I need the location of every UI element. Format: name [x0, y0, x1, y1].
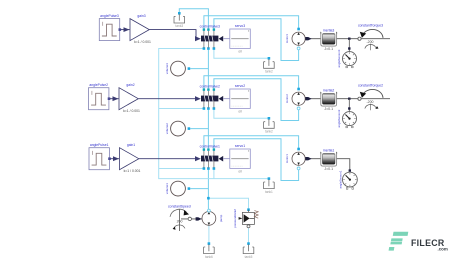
- tank tank5 under relief valve: [243, 244, 254, 258]
- pulse source anglePulse1: [89, 143, 111, 170]
- volume volume1: [165, 181, 185, 196]
- svg-text:servo3: servo3: [235, 24, 245, 28]
- tank tank2 at y58.3: [264, 59, 275, 73]
- pulse source anglePulse2: [89, 83, 111, 110]
- svg-text:oil: oil: [238, 49, 242, 53]
- svg-text:servo1: servo1: [235, 144, 245, 148]
- svg-text:anglePulse2: anglePulse2: [89, 83, 108, 87]
- svg-text:k=1 / 0.001: k=1 / 0.001: [123, 109, 140, 113]
- wire gain2 to controlValve2: [138, 98, 199, 100]
- inertia inertia3: [320, 28, 337, 51]
- gain gain1: [120, 143, 141, 173]
- svg-text:volume3: volume3: [165, 63, 169, 74]
- shaft motor2 to inertia2: [305, 97, 321, 100]
- torque source constantTorque2: [358, 83, 383, 110]
- shaft inertia1 to speedSensor1: [337, 159, 351, 172]
- wire valve3 T-port to tank3: [179, 9, 208, 31]
- svg-text:.com: .com: [438, 246, 448, 251]
- wire relief valve branch: [208, 198, 248, 210]
- wire anglePulse1 to gain1: [110, 156, 119, 161]
- svg-text:-200: -200: [366, 40, 373, 44]
- svg-text:constantTorque2: constantTorque2: [358, 83, 383, 87]
- svg-text:oil: oil: [238, 169, 242, 173]
- wire valve3 leak to tank2: [214, 49, 269, 59]
- wire valve1 leak down: [213, 169, 215, 179]
- shaft motor3 to inertia3: [305, 37, 321, 40]
- svg-text:controlValve2: controlValve2: [200, 84, 220, 88]
- svg-text:anglePulse1: anglePulse1: [90, 143, 109, 147]
- inertia inertia1: [320, 148, 337, 171]
- wire valve2 leak to tank2b: [214, 109, 269, 119]
- watermark logo FILECR: [389, 232, 448, 252]
- svg-text:pump: pump: [219, 214, 223, 222]
- speed source constantSpeed: [168, 204, 191, 231]
- wire return bus to tank1: [159, 49, 269, 179]
- motor motor2: [285, 92, 305, 110]
- svg-text:inertia3: inertia3: [323, 28, 334, 32]
- svg-text:J=0.1: J=0.1: [324, 167, 333, 171]
- svg-text:gain3: gain3: [137, 14, 145, 18]
- svg-text:servo2: servo2: [235, 84, 245, 88]
- shaft motor1 to inertia1: [305, 157, 321, 160]
- cylinder servo3: [223, 24, 250, 54]
- sensor speedSensor3: [337, 38, 357, 68]
- wire valve1 T-port to bus: [159, 168, 204, 170]
- shaft inertia2 to constantTorque2: [337, 97, 390, 100]
- relief valve supplyPressureLimiter: [233, 209, 258, 228]
- shaft constantSpeed to pump: [181, 217, 202, 220]
- svg-text:anglePulse3: anglePulse3: [100, 14, 119, 18]
- pulse source anglePulse3: [99, 14, 121, 41]
- svg-text:tank6: tank6: [205, 255, 213, 259]
- svg-text:tank5: tank5: [245, 255, 253, 259]
- sensor speedSensor2: [337, 98, 357, 128]
- svg-text:angleSensor3: angleSensor3: [337, 49, 341, 67]
- wire valve3 A-port to motor3 top: [204, 16, 299, 31]
- wire relief valve to tank5: [248, 228, 250, 243]
- shaft inertia3 to constantTorque3: [337, 37, 390, 40]
- pump pump: [202, 209, 223, 225]
- torque source constantTorque3: [358, 23, 383, 50]
- svg-text:angleSensor2: angleSensor2: [337, 109, 341, 127]
- wire supply line P: [207, 49, 209, 89]
- svg-text:constantSpeed: constantSpeed: [168, 204, 191, 208]
- svg-text:k=1 / 0.001: k=1 / 0.001: [134, 40, 151, 44]
- wire valve1 B-port to motor1 bottom: [214, 139, 299, 181]
- tank tank6 under pump: [204, 244, 215, 258]
- svg-text:controlValve1: controlValve1: [200, 144, 220, 148]
- svg-text:J=0.1: J=0.1: [324, 47, 333, 51]
- wire gain1 to controlValve1: [139, 158, 200, 160]
- svg-text:constantTorque3: constantTorque3: [358, 23, 383, 27]
- svg-text:tank1: tank1: [265, 190, 273, 194]
- svg-text:tank2: tank2: [265, 130, 273, 134]
- cylinder servo1: [223, 144, 250, 174]
- svg-text:200: 200: [177, 220, 183, 224]
- wire volume2 to supply line: [190, 128, 208, 130]
- wire valve1 A-port to motor1 top: [204, 136, 299, 151]
- svg-text:gain2: gain2: [126, 83, 134, 87]
- inertia inertia2: [320, 88, 337, 111]
- node junctions hydraulic: [178, 12, 300, 245]
- wire valve2 T-port to bus: [159, 108, 204, 110]
- wire volume3 to supply line: [190, 68, 208, 70]
- gain gain3: [130, 14, 151, 44]
- svg-text:J=0.1: J=0.1: [324, 107, 333, 111]
- motor motor1: [285, 152, 305, 170]
- svg-text:inertia1: inertia1: [323, 148, 334, 152]
- svg-text:tank2: tank2: [265, 70, 273, 74]
- wire anglePulse2 to gain2: [110, 96, 119, 101]
- tank tank3: [174, 14, 185, 28]
- svg-text:inertia2: inertia2: [323, 88, 334, 92]
- wire valve2 A-port to motor2 top: [204, 76, 299, 91]
- svg-text:pressureRelief: pressureRelief: [233, 209, 237, 228]
- svg-text:volume2: volume2: [165, 123, 169, 134]
- wire valve3 B-port to motor3 bottom: [214, 19, 299, 61]
- cylinder servo2: [223, 84, 250, 114]
- svg-text:volume1: volume1: [165, 183, 169, 194]
- volume volume2: [165, 121, 185, 136]
- svg-text:motor2: motor2: [285, 94, 289, 103]
- valve controlValve1: [200, 144, 224, 167]
- gain gain2: [119, 83, 140, 113]
- tank tank1 at y178.6: [264, 179, 275, 193]
- valve controlValve3: [200, 24, 224, 47]
- svg-text:gain1: gain1: [127, 143, 135, 147]
- svg-text:oil: oil: [238, 109, 242, 113]
- wire pump to tank6: [208, 225, 210, 243]
- svg-text:angleSensor1: angleSensor1: [339, 170, 343, 188]
- wire valve2 B-port to motor2 bottom: [214, 79, 299, 121]
- svg-text:tank3: tank3: [175, 24, 183, 28]
- svg-text:-200: -200: [366, 100, 373, 104]
- wire gain3 to controlValve3: [149, 30, 196, 39]
- tank tank2 at y118.3: [264, 119, 275, 133]
- svg-text:k=1 / 0.001: k=1 / 0.001: [124, 169, 141, 173]
- svg-text:controlValve3: controlValve3: [200, 24, 220, 28]
- svg-text:motor1: motor1: [285, 154, 289, 163]
- motor motor3: [285, 32, 305, 50]
- svg-text:motor3: motor3: [285, 34, 289, 43]
- wire anglePulse3 to gain3: [121, 27, 130, 32]
- sensor speedSensor1: [339, 170, 358, 189]
- wire volume1 to supply line: [190, 188, 208, 190]
- valve controlValve2: [200, 84, 224, 107]
- volume volume3: [165, 61, 185, 76]
